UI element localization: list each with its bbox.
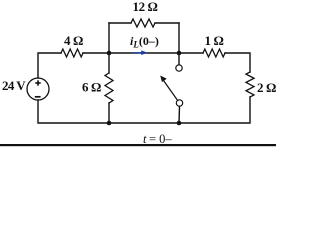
switch S1 lever arrowhead [160, 76, 167, 83]
node D junction dot (bottom of switch) [177, 121, 182, 126]
resistor R1 4ohm [61, 49, 83, 57]
switch S1 lever [164, 81, 178, 101]
separator line [0, 144, 276, 146]
wire bridge top-right [155, 22, 179, 24]
switch S1 lower stub [178, 106, 181, 123]
resistor R3 6ohm [105, 73, 113, 103]
voltage source V1 minus sign [35, 96, 41, 98]
wire bottom middle [109, 122, 179, 124]
wire 6ohm to bottom wire [108, 103, 110, 123]
wire 2ohm to bottom-right corner [179, 97, 250, 123]
voltage source V1 plus sign [35, 80, 40, 85]
resistor R2 12ohm [131, 19, 155, 27]
resistor R4 1ohm [203, 49, 225, 57]
svg-text:1 Ω: 1 Ω [205, 33, 224, 48]
wire node A down to 6ohm [108, 53, 110, 73]
svg-text:iL(0–): iL(0–) [130, 34, 159, 50]
switch S1 lower contact [176, 100, 182, 106]
wire top-left from corner to 4ohm [38, 53, 61, 78]
switch S1 stub from node B [178, 53, 180, 65]
wire node A to node B (middle) [109, 52, 179, 54]
svg-text:24 V: 24 V [2, 78, 26, 93]
svg-text:2 Ω: 2 Ω [257, 80, 276, 95]
wire bridge top-left [109, 22, 131, 24]
wire node B to 1ohm [179, 52, 203, 54]
svg-text:4 Ω: 4 Ω [64, 33, 83, 48]
svg-text:12 Ω: 12 Ω [133, 0, 158, 14]
wire bottom left [38, 100, 109, 123]
node C junction dot (bottom of 6ohm) [107, 121, 112, 126]
wire 1ohm to top-right corner [225, 53, 250, 72]
wire bridge left riser [108, 23, 110, 53]
wire 4ohm to node A [83, 52, 109, 54]
svg-text:t = 0–: t = 0– [143, 132, 172, 146]
resistor R5 2ohm [246, 72, 254, 97]
wire bridge right riser [178, 23, 180, 53]
current arrow iL [132, 50, 148, 55]
switch S1 upper contact [176, 65, 182, 71]
svg-text:6 Ω: 6 Ω [82, 80, 101, 95]
voltage source V1 circle [27, 78, 49, 100]
node A junction dot [107, 51, 112, 56]
node B junction dot [177, 51, 182, 56]
